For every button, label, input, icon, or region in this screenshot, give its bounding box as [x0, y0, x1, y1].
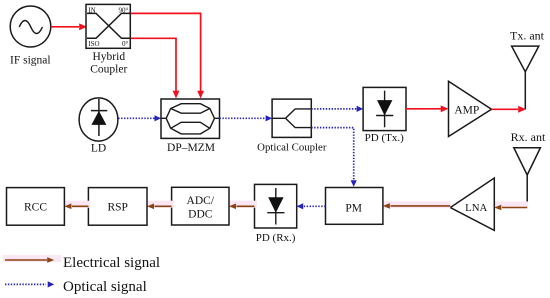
modulator DP-MZM: [161, 99, 220, 154]
svg-text:IF signal: IF signal: [10, 55, 51, 67]
svg-text:Optical Coupler: Optical Coupler: [257, 142, 327, 154]
svg-text:Electrical signal: Electrical signal: [63, 255, 160, 271]
processor RSP: [88, 188, 147, 226]
svg-text:90°: 90°: [118, 6, 128, 14]
svg-text:ISO: ISO: [88, 40, 99, 48]
wire: PD (Rx.) to ADC/DDC (electrical): [227, 201, 257, 209]
wire: ADC/DDC to RSP (electrical): [145, 201, 174, 209]
wire: LNA to PM (electrical): [381, 201, 450, 209]
wire: hybrid 0deg output to DP-MZM RF port (electrical): [131, 38, 180, 98]
svg-text:Coupler: Coupler: [90, 63, 127, 75]
wire: PD (Tx.) to AMP (electrical): [406, 105, 449, 112]
svg-text:AMP: AMP: [454, 105, 479, 117]
svg-text:IN: IN: [88, 6, 95, 14]
source IF signal: [10, 6, 51, 67]
svg-text:LNA: LNA: [465, 202, 487, 214]
svg-text:PM: PM: [345, 202, 362, 214]
svg-text:RSP: RSP: [107, 201, 127, 213]
wire: coupler upper output to PD (Tx.) (optical): [311, 106, 363, 112]
photodiode PD (Tx.): [363, 87, 406, 143]
wire: RSP to RCC (electrical): [62, 201, 90, 209]
wire: IF signal to hybrid coupler (electrical): [51, 23, 87, 30]
wire: Rx antenna to LNA (electrical): [492, 202, 528, 211]
wire: LD to DP-MZM (optical): [118, 115, 161, 121]
photodiode PD (Rx.): [255, 184, 297, 244]
svg-text:DDC: DDC: [188, 209, 213, 221]
svg-text:PD (Rx.): PD (Rx.): [256, 232, 296, 244]
amplifier AMP: [449, 81, 492, 136]
svg-text:Tx. ant: Tx. ant: [510, 29, 545, 43]
wire: coupler lower output to PM (optical): [311, 128, 357, 187]
svg-text:0°: 0°: [122, 40, 129, 48]
legend: optical signal: [5, 279, 147, 295]
wire: DP-MZM to optical coupler (optical): [220, 115, 273, 121]
svg-text:Optical signal: Optical signal: [63, 279, 147, 295]
svg-text:PD (Tx.): PD (Tx.): [365, 132, 404, 144]
svg-text:Hybrid: Hybrid: [93, 51, 126, 63]
hybrid coupler: [86, 4, 130, 75]
optical coupler: [257, 99, 327, 154]
wire: PM to PD (Rx.) (optical): [297, 203, 326, 209]
svg-text:LD: LD: [91, 143, 106, 155]
phase modulator PM: [326, 188, 383, 225]
svg-text:ADC/: ADC/: [187, 195, 215, 207]
svg-text:DP–MZM: DP–MZM: [167, 142, 215, 154]
controller RCC: [7, 188, 65, 226]
converter ADC/DDC: [172, 187, 229, 225]
svg-text:RCC: RCC: [24, 201, 47, 213]
legend: electrical signal: [3, 255, 160, 271]
laser diode LD: [79, 98, 118, 155]
antenna Tx. ant: [510, 29, 545, 110]
amplifier LNA: [450, 178, 494, 230]
wire: AMP to Tx antenna (electrical): [492, 106, 527, 113]
svg-text:Rx. ant: Rx. ant: [511, 130, 546, 144]
antenna Rx. ant: [511, 130, 546, 208]
wire: hybrid 90deg output to DP-MZM RF port (electrical): [131, 13, 204, 98]
